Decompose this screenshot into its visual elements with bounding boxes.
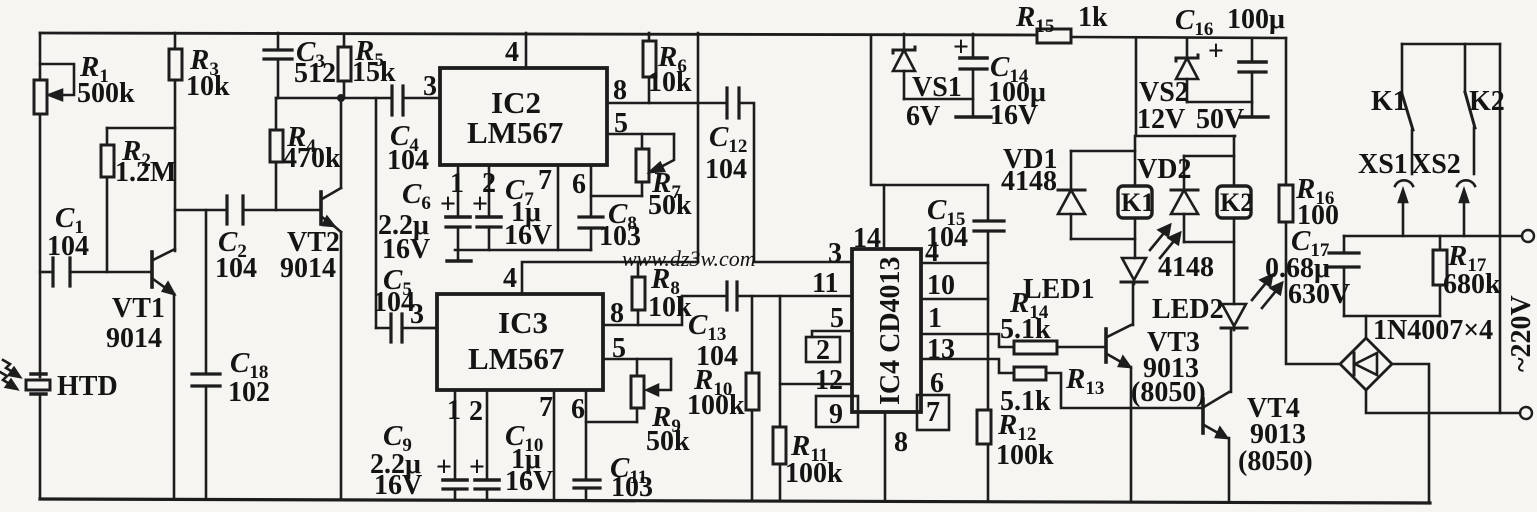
svg-text:7: 7 — [538, 165, 552, 196]
capacitor C2 (104) — [225, 196, 228, 224]
transistor VT4 9013(8050) — [1201, 399, 1205, 433]
relay coil K2 — [1217, 186, 1251, 218]
wire rail corner down to R16 — [1285, 38, 1288, 185]
svg-text:4148: 4148 — [1001, 166, 1057, 197]
diode VD1 (4148) — [1071, 150, 1135, 153]
wire VD2 anode to K2 bottom — [1184, 241, 1234, 244]
svg-text:VD2: VD2 — [1137, 154, 1191, 185]
transistor VT1 (9014) — [150, 252, 154, 287]
wire IC4 pin12 — [780, 383, 852, 386]
svg-text:K2: K2 — [1220, 188, 1253, 217]
svg-text:16V: 16V — [382, 234, 430, 265]
svg-text:+: + — [469, 452, 485, 483]
svg-text:XS2: XS2 — [1411, 149, 1461, 180]
wire R16 to bridge + — [1286, 222, 1340, 364]
wire R13 to VT4 base — [1046, 373, 1201, 408]
boxed pin 2 — [806, 337, 840, 362]
potentiometer R9 (50k) — [636, 359, 639, 376]
svg-text:2: 2 — [816, 335, 830, 366]
svg-text:LED1: LED1 — [1023, 274, 1095, 305]
svg-text:+: + — [953, 32, 969, 63]
svg-text:7: 7 — [539, 392, 553, 423]
sound arrows into HTD — [3, 360, 16, 374]
capacitor C18 (102) — [205, 210, 208, 374]
wire IC3 pin3 input — [421, 327, 437, 330]
wire IC2 pin4 to rail — [525, 33, 528, 68]
ground bar under C14 — [956, 115, 991, 118]
capacitor C6 (2.2u 16V) — [446, 215, 470, 219]
svg-text:+: + — [472, 189, 488, 220]
svg-text:104: 104 — [373, 287, 415, 318]
wire IC3 pin6 — [585, 390, 588, 480]
wire IC4 pin13 to R13 — [921, 359, 1014, 373]
svg-text:K1: K1 — [1121, 188, 1154, 217]
svg-text:16V: 16V — [374, 470, 422, 501]
wire C1 base line — [40, 271, 53, 274]
LED2 — [1222, 304, 1246, 326]
wire VD1 anode to K1 bottom — [1071, 238, 1135, 241]
wire bottom ground rail — [40, 499, 1430, 503]
wire +V riser to IC3 supply — [697, 33, 700, 262]
wire VT4 emitter to ground — [1228, 438, 1231, 502]
wire K2 top stub — [1233, 136, 1236, 186]
ground bar under C6 — [457, 250, 460, 261]
svg-text:3: 3 — [828, 238, 842, 269]
svg-text:HTD: HTD — [57, 371, 118, 402]
svg-text:104: 104 — [387, 145, 429, 176]
wire C5 branch from VT2 collector node — [375, 98, 378, 328]
transistor VT2 (9014) — [319, 192, 323, 224]
svg-text:10: 10 — [927, 270, 955, 301]
svg-text:+: + — [436, 452, 452, 483]
svg-text:+: + — [440, 189, 456, 220]
svg-text:50k: 50k — [648, 190, 692, 221]
socket XS1 — [1395, 180, 1413, 186]
svg-text:~220V: ~220V — [1506, 295, 1537, 372]
resistor R17 (680k) — [1439, 236, 1442, 250]
svg-text:10k: 10k — [186, 71, 230, 102]
wire VT4 collector to LED2 — [1230, 330, 1233, 392]
svg-text:104: 104 — [47, 231, 89, 262]
switch K2 contact — [1464, 44, 1467, 92]
svg-text:8: 8 — [894, 427, 908, 458]
svg-text:6: 6 — [572, 169, 586, 200]
wire R7 bottom to pin6 — [591, 195, 642, 198]
svg-text:9: 9 — [829, 399, 843, 430]
piezo transducer HTD — [31, 372, 46, 375]
wire IC3 pin4 supply line — [522, 262, 698, 294]
potentiometer R7 (50k) — [641, 134, 644, 149]
svg-text:9014: 9014 — [280, 253, 336, 284]
wire IC3 pin7 — [553, 390, 556, 500]
svg-text:K1: K1 — [1371, 86, 1407, 117]
wire IC3 pin2 — [486, 390, 489, 480]
wire R1 bottom to C1 node to HTD — [39, 114, 42, 377]
terminal circle A — [1522, 230, 1534, 242]
op-amp IC3 LM567 box — [437, 294, 603, 390]
flip-flop IC4 CD4013 box — [852, 249, 921, 412]
svg-text:12V: 12V — [1137, 104, 1185, 135]
wire reset bus down to R12 — [987, 263, 990, 410]
wire VT3 emitter to ground — [1130, 367, 1133, 500]
svg-text:6: 6 — [930, 368, 944, 399]
svg-text:10k: 10k — [648, 292, 692, 323]
wire IC2 pin2 — [488, 165, 491, 217]
wire IC4 pin10 line — [921, 298, 988, 301]
terminal circle B — [1520, 407, 1532, 419]
svg-text:100k: 100k — [785, 458, 843, 489]
svg-text:3: 3 — [410, 299, 424, 330]
relay coil K1 — [1118, 186, 1152, 218]
svg-text:(8050): (8050) — [1238, 446, 1313, 477]
svg-text:16V: 16V — [990, 100, 1038, 131]
capacitor C12 (104) — [725, 88, 728, 118]
svg-text:104: 104 — [926, 222, 968, 253]
svg-text:470k: 470k — [283, 143, 341, 174]
svg-text:9014: 9014 — [106, 323, 162, 354]
svg-text:104: 104 — [705, 154, 747, 185]
svg-text:4: 4 — [505, 37, 519, 68]
boxed pin 7 — [917, 395, 949, 430]
wire VT3 collector to LED1 — [1132, 284, 1135, 325]
capacitor C5 (104) — [389, 314, 392, 342]
svg-text:1k: 1k — [1078, 2, 1108, 33]
wire IC4 pin1 to R14 — [921, 334, 1014, 347]
svg-text:(8050): (8050) — [1131, 377, 1206, 408]
svg-text:IC4 CD4013: IC4 CD4013 — [875, 256, 906, 405]
svg-text:5.1k: 5.1k — [1000, 386, 1051, 417]
wire K1 top stub — [1134, 136, 1137, 186]
svg-text:2: 2 — [469, 396, 483, 427]
svg-text:6: 6 — [571, 394, 585, 425]
wire C3/R4/R5 node line — [276, 97, 392, 100]
svg-text:XS1: XS1 — [1358, 149, 1408, 180]
wire IC2 pin1 — [457, 165, 460, 217]
svg-text:500k: 500k — [77, 78, 135, 109]
wire IC4 pin8 to ground — [884, 412, 887, 500]
svg-text:10k: 10k — [648, 67, 692, 98]
svg-text:100μ: 100μ — [1227, 4, 1285, 35]
wire mains line A (sockets) — [1344, 235, 1522, 238]
node dot at R5 bottom — [337, 94, 345, 102]
transistor VT3 9013(8050) — [1104, 329, 1108, 362]
wire R3 bottom collector line VT1 — [174, 80, 177, 251]
resistor R1 (500k potentiometer) — [34, 80, 47, 114]
resistor R10 (100k) — [751, 296, 754, 373]
svg-text:13: 13 — [927, 334, 955, 365]
resistor R2 (1.2M) — [106, 177, 109, 272]
socket XS2 — [1457, 180, 1475, 186]
svg-text:LED2: LED2 — [1152, 294, 1224, 325]
LED1 — [1122, 258, 1146, 280]
wire bridge top AC to C17 — [1365, 316, 1368, 338]
wire K bus down to mains B — [1499, 44, 1502, 413]
svg-text:LM567: LM567 — [468, 341, 564, 376]
svg-text:512: 512 — [294, 58, 336, 89]
svg-text:1N4007×4: 1N4007×4 — [1373, 315, 1493, 346]
wire IC4 pin5 to boxed pin2 — [812, 331, 852, 337]
diode VD2 (4148) — [1184, 155, 1234, 158]
svg-text:1.2M: 1.2M — [115, 157, 176, 188]
wire IC3 pin5 line — [603, 358, 671, 361]
wire VS1 anode to C14 — [904, 98, 973, 101]
wire supply line to C15 — [871, 35, 988, 221]
zener VS2 (12V) — [1186, 38, 1189, 58]
svg-text:103: 103 — [611, 472, 653, 503]
capacitor C4 (104) — [390, 86, 393, 115]
wire VS2 anode to C16 — [1187, 101, 1252, 104]
svg-text:8: 8 — [613, 75, 627, 106]
svg-text:5.1k: 5.1k — [1000, 314, 1051, 345]
bridge rectifier 1N4007x4 — [1340, 338, 1392, 390]
capacitor C17 (0.68u 630V) — [1343, 267, 1346, 316]
LED1 emission arrows — [1150, 228, 1168, 250]
svg-text:100k: 100k — [687, 390, 745, 421]
svg-text:4: 4 — [503, 263, 517, 294]
svg-text:100k: 100k — [996, 440, 1054, 471]
svg-text:1: 1 — [447, 395, 461, 426]
svg-text:12: 12 — [815, 365, 843, 396]
capacitor C10 (1u 16V) — [475, 478, 499, 482]
wire IC4 pin14 supply — [883, 185, 886, 249]
resistor R16 (100) — [1279, 185, 1293, 222]
wire IC2 pin8 output line — [607, 102, 727, 105]
svg-text:1: 1 — [928, 303, 942, 334]
wire VT2 emitter to ground — [340, 232, 343, 499]
wire HTD bottom to ground rail — [39, 394, 42, 499]
wire IC2 pin5 line — [607, 133, 674, 136]
capacitor C14 (100u 16V) — [972, 34, 975, 58]
wire R2 top to collector line — [107, 127, 175, 130]
op-amp IC2 LM567 box — [440, 68, 607, 165]
resistor R3 (10k) — [174, 33, 177, 49]
svg-text:5: 5 — [830, 303, 844, 334]
capacitor C8 (103) — [579, 215, 603, 218]
wire IC2 decoupling common line — [455, 249, 591, 252]
capacitor C16 (100u 50V) — [1251, 38, 1254, 62]
wire IC2 pin7 — [557, 165, 560, 250]
svg-text:104: 104 — [215, 253, 257, 284]
wire top supply rail right section after R15 — [1071, 37, 1286, 38]
capacitor C15 (104) — [974, 219, 1004, 222]
wire VT1 collector node to C2 line — [175, 209, 227, 212]
capacitor C7 (1u 16V) — [477, 215, 501, 219]
boxed pin 9 — [816, 396, 858, 427]
wire top supply rail left section — [40, 33, 1037, 35]
LED2 emission arrows — [1252, 278, 1270, 300]
svg-text:www.dz3w.com: www.dz3w.com — [622, 246, 756, 271]
resistor R14 (5.1k) — [1014, 341, 1057, 354]
resistor R11 (100k) — [779, 296, 782, 427]
svg-text:16V: 16V — [504, 220, 552, 251]
capacitor C3 (512) — [277, 33, 280, 50]
ground bar under C16 — [1240, 115, 1268, 118]
svg-text:630V: 630V — [1288, 279, 1350, 310]
resistor R8 (10k) — [637, 262, 640, 277]
wire IC4 pin4 reset line — [921, 262, 988, 265]
wire 12V riser to relay line — [1136, 38, 1235, 136]
wire bridge bottom to mains line B — [1366, 390, 1520, 413]
wire left edge vertical — [39, 33, 42, 80]
svg-text:16V: 16V — [505, 466, 553, 497]
wire IC2 pin6 — [590, 165, 593, 217]
capacitor C13 (104) — [725, 282, 728, 310]
svg-text:14: 14 — [853, 223, 881, 254]
svg-text:IC3: IC3 — [498, 305, 548, 340]
wire IC3 pin1 — [454, 390, 457, 480]
zener VS1 (6V) — [903, 34, 906, 50]
svg-text:15k: 15k — [352, 57, 396, 88]
resistor R6 (10k) — [648, 33, 651, 41]
svg-text:8: 8 — [610, 298, 624, 329]
resistor R13 (5.1k) — [1014, 367, 1046, 380]
svg-text:50k: 50k — [646, 426, 690, 457]
wire IC3 pin8 output line — [603, 296, 727, 325]
wire C17/R17 bottom line — [1344, 315, 1440, 318]
svg-text:LM567: LM567 — [467, 115, 563, 150]
svg-text:VS1: VS1 — [912, 72, 962, 103]
wire K contacts top line — [1402, 43, 1500, 46]
svg-text:6V: 6V — [906, 101, 940, 132]
svg-text:VT1: VT1 — [112, 293, 165, 324]
capacitor C9 (2.2u 16V) — [443, 478, 467, 482]
resistor R4 (470k) — [275, 162, 278, 210]
resistor R12 (100k) — [977, 410, 991, 444]
svg-text:K2: K2 — [1469, 86, 1505, 117]
wire R9 bottom to pin6 — [586, 421, 637, 424]
wire VT1 emitter to ground — [173, 294, 176, 499]
capacitor C1 — [51, 258, 54, 286]
resistor R5 (15k) — [343, 34, 346, 47]
switch K1 contact — [1401, 44, 1404, 94]
svg-text:4148: 4148 — [1158, 252, 1214, 283]
svg-text:102: 102 — [228, 377, 270, 408]
svg-text:5: 5 — [612, 333, 626, 364]
svg-text:680k: 680k — [1443, 269, 1501, 300]
svg-text:5: 5 — [614, 108, 628, 139]
capacitor C11 (103) — [574, 478, 600, 481]
svg-text:50V: 50V — [1196, 104, 1244, 135]
svg-text:7: 7 — [926, 397, 940, 428]
wire bridge right AC to ground rail — [1392, 364, 1429, 503]
svg-text:+: + — [1208, 36, 1224, 67]
svg-text:3: 3 — [423, 71, 437, 102]
svg-text:11: 11 — [812, 268, 838, 299]
resistor R15 (1k) in rail — [1037, 29, 1071, 43]
